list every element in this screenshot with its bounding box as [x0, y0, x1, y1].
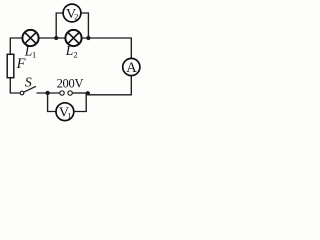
svg-text:200V: 200V [57, 77, 84, 91]
svg-text:S: S [25, 75, 32, 90]
svg-text:2: 2 [74, 11, 78, 21]
svg-text:L: L [65, 43, 74, 58]
svg-text:1: 1 [67, 110, 71, 120]
svg-text:2: 2 [73, 50, 77, 60]
svg-text:A: A [126, 60, 137, 76]
svg-text:F: F [16, 56, 26, 72]
svg-text:1: 1 [32, 50, 36, 60]
